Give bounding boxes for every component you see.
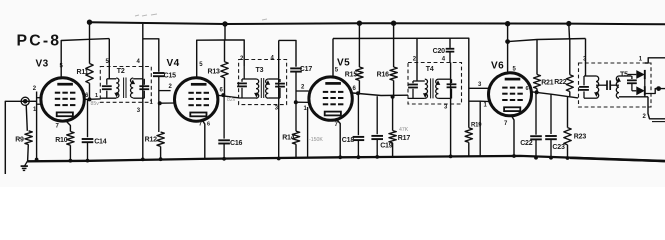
capacitor C13 T5 secondary [631,76,633,79]
capacitor C7 T3 primary [241,79,243,82]
node V6 cathode rail [512,154,516,158]
resistor R16 [393,38,395,67]
capacitor C12 T5 series [596,84,607,86]
node T2 pin3 rail [141,158,145,162]
svg-text:1: 1 [150,100,154,106]
wire T2 secondary top node [133,78,143,80]
wire B+ dot drop b [393,23,395,38]
svg-text:T3: T3 [256,67,264,74]
node B+ dot V5b [391,21,396,26]
wire pin2 corner [652,121,665,123]
svg-text:3: 3 [478,82,482,88]
svg-text:4: 4 [271,56,275,62]
wire V4 plate to bus [197,40,225,78]
wire stage3 bus [333,37,468,39]
wire V6 pin6 to T5 [532,92,578,98]
wire T2 primary bottom node [100,97,116,99]
resistor R13 [224,40,226,62]
inductor L2 T2 secondary [131,78,134,98]
wire V5 cathode [337,120,341,158]
inductor L3 T3 primary [256,79,259,98]
diode D2 lower [632,90,636,92]
wire V3 plate to bus [61,39,109,78]
wire V5 pin6 to T4 [353,93,408,96]
wire B+ dot drop V6 [568,24,571,39]
wire T2 primary top node [107,78,116,80]
svg-text:7: 7 [335,122,339,128]
wire V5 pin1 down [307,107,309,158]
svg-text:C14: C14 [94,138,107,145]
wire T5 pin3 into box [585,39,587,77]
inductor L1 T2 primary [116,78,119,98]
tube V4 [175,78,218,121]
inductor L8 T5 secondary [616,76,619,98]
wire V4 cathode [203,121,205,159]
resistor R12 [157,132,164,146]
capacitor C18 [357,93,359,135]
svg-text:V3: V3 [36,59,49,70]
node V5 pin6 junction [356,91,360,95]
wire T4 primary bottom node [408,97,425,99]
diode D1 upper [628,74,636,76]
resistor R17 [392,97,394,131]
svg-text:2: 2 [301,85,305,91]
wire V6 pin3 stub [469,87,489,89]
svg-text:R23: R23 [574,134,587,141]
transformer T3 core [260,78,262,98]
svg-text:47K: 47K [399,127,409,133]
capacitor C5 T2 primary [106,79,108,85]
transformer T4 shield box [408,63,462,105]
svg-text:R11: R11 [77,69,89,76]
svg-text:7: 7 [504,121,508,127]
svg-text:V6: V6 [491,61,504,72]
resistor R14 [292,131,299,144]
svg-text:R9: R9 [15,137,24,144]
wire B+ dot drop a [358,23,360,38]
svg-text:1: 1 [639,57,643,63]
transformer T2 shield box [100,67,151,103]
svg-text:2: 2 [33,86,37,92]
wire B+ dot to bus V3 [89,22,91,40]
capacitor C11 T5 primary [583,76,585,85]
input terminal [21,97,29,105]
ground [25,161,28,166]
svg-text:PC-8: PC-8 [17,33,62,50]
resistor R21 [536,40,538,75]
svg-text:4: 4 [442,57,446,63]
svg-text:R22: R22 [554,79,567,86]
inductor L5 T4 primary [425,79,428,98]
resistor R22 [569,39,571,75]
node output terminal [656,86,661,91]
wire T5 primary bottom node [584,97,596,99]
svg-text:7: 7 [56,124,60,130]
wire T5 pin2 out [648,97,665,119]
capacitor C14 [87,99,89,137]
wire C17 bus [279,40,296,66]
svg-text:2: 2 [169,84,173,90]
svg-text:R13: R13 [208,69,221,76]
resistor R10 [66,120,71,131]
wire T4 secondary bottom node [438,97,451,99]
svg-text:3: 3 [137,108,141,114]
capacitor C20 [449,38,451,48]
svg-text:R17: R17 [398,135,411,142]
node R10 rail [69,159,73,163]
node V3 pin6 junction [88,97,92,101]
node C14 rail [86,159,90,163]
node V4 pin6 junction [221,93,225,97]
svg-text:85v: 85v [91,101,100,107]
svg-text:T5: T5 [620,72,628,79]
wire C15 bus [143,39,159,72]
node B+ dot V5a [357,21,362,26]
svg-text:C18: C18 [342,137,355,144]
svg-text:4: 4 [137,59,141,65]
tube V3 [41,78,84,121]
svg-text:C15: C15 [164,72,177,79]
wire grid junction to V4 pin1 [160,102,175,104]
svg-text:C17: C17 [300,66,313,73]
svg-text:1: 1 [484,103,488,109]
capacitor C9 T4 primary [412,81,414,83]
capacitor C10 T4 secondary [451,79,453,83]
svg-text:7: 7 [199,122,203,128]
svg-text:2: 2 [413,57,417,63]
wire bus to V6 grid [468,38,469,128]
node V6 plate dot [505,39,510,44]
svg-text:5: 5 [199,62,203,68]
resistor R23 [567,96,569,128]
svg-text:6: 6 [526,86,529,92]
svg-text:R21: R21 [541,80,554,87]
wire T2 secondary bottom node [133,97,144,99]
svg-text:6: 6 [220,88,224,94]
wire V5 pin2 stub [296,90,309,92]
capacitor C15 [153,72,165,74]
node R16 junction [391,95,395,99]
wire T5 primary top node [584,75,596,77]
svg-text:1: 1 [304,106,308,112]
wire stage4 bus [508,39,586,42]
svg-text:R16: R16 [377,72,390,79]
svg-text:R19: R19 [471,122,482,128]
node B+ dot V4 [222,21,227,26]
node R12 rail [159,157,163,161]
transformer T4 core [430,78,432,98]
svg-text:C16: C16 [230,140,243,147]
capacitor C23 [550,94,552,134]
wire bottom ground rail [27,156,665,161]
svg-text:C19: C19 [380,143,393,150]
node R23 rail [566,156,570,160]
wire T3 primary bottom node [239,97,256,99]
wire terminal to grid node [25,100,36,102]
wire T4 primary top node [413,80,425,82]
node V3 grid rail [35,158,39,162]
node C19 rail [375,155,379,159]
node C23 rail [549,156,553,160]
resistor R19 [465,128,472,143]
node V5 cathode rail [338,155,342,159]
wire bus V4 to T3 pin2 [225,40,244,66]
capacitor C19 [376,96,378,134]
inductor L7 T5 primary [596,76,599,98]
transformer T2 core [123,78,125,99]
capacitor C6 T2 secondary [143,79,145,85]
node V4 grid junction [158,101,162,105]
svg-text:R10: R10 [55,137,68,144]
wire T4 pin3 vertical [450,63,452,157]
node V6 rail dot [505,21,510,26]
wire V6 plate from rail [507,24,509,73]
wire T3 pin4-pin3 vertical [278,40,280,158]
node C22 rail [534,156,538,160]
wire V4 pin6 to T3 [218,95,239,98]
wire T2 pin4-pin3 vertical [142,24,144,160]
resistor R11 [89,40,91,64]
node V6 pin6 junction [535,90,539,94]
wire T5 pin1 from right edge [645,58,665,63]
svg-text:C22: C22 [520,140,533,147]
wire B+ dot to bus V4 [224,24,226,40]
svg-text:R14: R14 [282,135,295,142]
svg-text:-150K: -150K [309,137,323,143]
wire T3 secondary bottom node [268,97,280,99]
svg-text:R12: R12 [145,137,158,144]
wire V6 cathode [512,116,515,156]
node V5 grid junction [294,100,298,104]
wire T3 pin2 into box [243,66,245,79]
capacitor C8 T3 secondary [279,79,281,82]
wire top B+ rail [90,22,665,24]
wire V3 pin6 to T2 [84,98,100,101]
wire V6 pin1 stub [480,100,489,102]
svg-text:6: 6 [207,122,210,128]
svg-text:V5: V5 [337,58,350,69]
wire T2 pin5 from bus [108,39,110,79]
wire input feed left edge [5,101,25,174]
capacitor C22 [535,92,537,135]
node T3 pin3 rail [277,157,281,161]
svg-text:T4: T4 [426,66,434,73]
svg-text:3: 3 [444,104,448,110]
node C18 rail [357,155,361,159]
wire T4 secondary top node [438,78,450,80]
node B+ dot V6 [566,21,571,26]
svg-text:V4: V4 [167,58,180,69]
tube V5 [309,77,352,120]
wire V3 grid vertical [36,92,38,160]
svg-text:82v: 82v [227,97,236,103]
transformer T5 shield box [579,63,652,107]
svg-text:6: 6 [353,86,357,92]
node B+ dot V3 [87,20,92,25]
svg-text:1: 1 [95,93,98,99]
capacitor C16 [223,95,225,139]
faint smudge top [135,14,267,20]
wire grid junction to V5 pin1 [296,101,309,103]
capacitor C17 [290,67,302,69]
svg-text:R15: R15 [345,72,358,79]
wire T3 secondary top node [268,78,278,80]
svg-text:5: 5 [513,67,517,73]
svg-text:C23: C23 [552,144,565,151]
wire V4 pin2 stub [159,90,171,92]
node T4 pin3 rail [449,155,453,159]
resistor R9 [26,105,27,131]
svg-text:C20: C20 [433,48,446,55]
wire V3 pin1 stub [37,103,42,105]
wire V3 pin2 stub [37,97,43,99]
wire T5 secondary bottom node [619,96,648,98]
inductor L6 T4 secondary [436,79,439,98]
wire T3 primary top node [242,78,256,80]
tube V6 [489,73,532,116]
wire bottom rail right thick [570,158,665,161]
svg-text:T2: T2 [117,68,125,75]
wire T5 secondary top node [619,75,632,77]
resistor R15 [358,39,360,68]
wire V6 pin1 link [469,101,480,156]
transformer T3 shield box [239,60,287,105]
node C16 rail [222,157,226,161]
svg-text:2: 2 [643,114,647,120]
wire V5 plate to bus [332,39,334,77]
wire T4 pin2 from bus [416,38,418,81]
wire diode output [645,89,665,94]
inductor L4 T3 secondary [266,79,269,98]
